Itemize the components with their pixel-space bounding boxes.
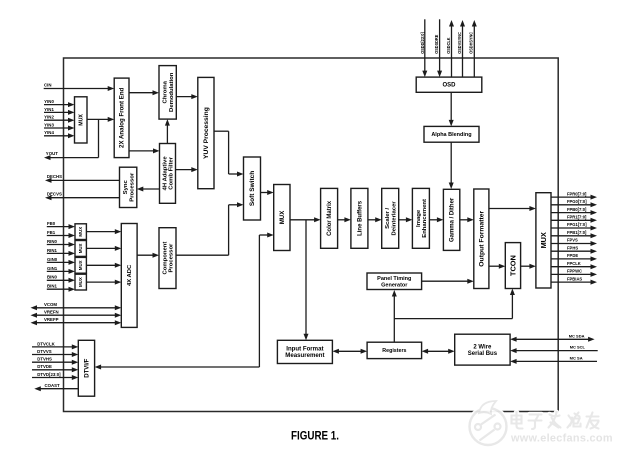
svg-text:Serial Bus: Serial Bus <box>468 351 498 357</box>
svg-text:FB0: FB0 <box>47 221 56 226</box>
svg-text:YIN0: YIN0 <box>44 99 54 104</box>
svg-text:MC SA: MC SA <box>570 356 583 361</box>
svg-text:Scaler /: Scaler / <box>385 208 391 229</box>
svg-text:RIN1: RIN1 <box>47 248 57 253</box>
svg-text:FPR0[7:0]: FPR0[7:0] <box>567 191 587 196</box>
svg-text:OSDHSYNC: OSDHSYNC <box>469 31 474 53</box>
svg-text:OSDSDRE: OSDSDRE <box>434 35 439 54</box>
svg-text:YIN3: YIN3 <box>44 122 54 127</box>
svg-text:MC SDA: MC SDA <box>569 333 585 338</box>
svg-text:MC SCL: MC SCL <box>570 345 586 350</box>
svg-text:YIN1: YIN1 <box>44 107 54 112</box>
svg-text:Comb Filter: Comb Filter <box>169 156 175 190</box>
svg-text:OSDD[23:0]: OSDD[23:0] <box>420 32 425 54</box>
svg-text:Demodulation: Demodulation <box>169 72 175 112</box>
svg-text:DTVI/F: DTVI/F <box>85 358 91 377</box>
svg-text:FIGURE 1.: FIGURE 1. <box>291 428 339 442</box>
svg-text:Color Matrix: Color Matrix <box>327 200 333 236</box>
svg-text:BIN0: BIN0 <box>47 275 57 280</box>
svg-text:FPBIAS: FPBIAS <box>567 276 582 281</box>
svg-text:VREFN: VREFN <box>44 310 59 315</box>
svg-text:FPB0[7:0]: FPB0[7:0] <box>567 207 587 212</box>
svg-text:MUX: MUX <box>78 243 83 253</box>
svg-text:MUX: MUX <box>539 232 548 248</box>
svg-text:MUX: MUX <box>279 210 286 225</box>
svg-text:DECHS: DECHS <box>47 174 62 179</box>
svg-text:Output Formatter: Output Formatter <box>479 211 486 267</box>
svg-text:Sync: Sync <box>123 180 129 195</box>
svg-text:4X ADC: 4X ADC <box>127 264 133 286</box>
svg-text:FPVS: FPVS <box>567 238 578 243</box>
svg-text:Component: Component <box>162 242 168 275</box>
svg-text:MUX: MUX <box>78 277 83 287</box>
svg-text:MUX: MUX <box>78 227 83 237</box>
svg-text:YIN2: YIN2 <box>44 115 54 120</box>
svg-text:DTVDE: DTVDE <box>37 364 52 369</box>
svg-text:FPDE: FPDE <box>567 253 578 258</box>
svg-text:Processor: Processor <box>169 243 175 273</box>
svg-text:Measurement: Measurement <box>285 352 324 359</box>
svg-text:TCON: TCON <box>509 255 518 276</box>
svg-text:MUX: MUX <box>79 114 85 126</box>
svg-text:VCOM: VCOM <box>44 302 57 307</box>
svg-text:Processor: Processor <box>129 172 135 202</box>
svg-text:RIN0: RIN0 <box>47 239 57 244</box>
svg-text:COAST: COAST <box>45 383 61 388</box>
svg-text:Panel Timing: Panel Timing <box>377 276 411 282</box>
svg-text:VREFP: VREFP <box>44 317 59 322</box>
svg-text:DECVS: DECVS <box>47 192 62 197</box>
svg-text:DTVVS: DTVVS <box>37 349 52 354</box>
svg-text:Gamma / Dither: Gamma / Dither <box>450 197 456 242</box>
svg-text:FPCLK: FPCLK <box>567 261 581 266</box>
svg-text:FPG1[7:0]: FPG1[7:0] <box>567 222 587 227</box>
svg-text:FB1: FB1 <box>47 230 56 235</box>
svg-text:Generator: Generator <box>381 282 408 288</box>
svg-text:DTVHS: DTVHS <box>37 357 52 362</box>
svg-text:www.elecfans.com: www.elecfans.com <box>510 433 613 445</box>
svg-text:FPG0[7:0]: FPG0[7:0] <box>567 199 587 204</box>
svg-text:OSDVSYNC: OSDVSYNC <box>457 32 462 54</box>
svg-text:Image: Image <box>416 209 422 227</box>
svg-text:BIN1: BIN1 <box>47 284 57 289</box>
svg-text:Registers: Registers <box>382 348 406 354</box>
svg-text:4H Adaptive: 4H Adaptive <box>162 156 168 191</box>
svg-text:FPPWC: FPPWC <box>567 269 582 274</box>
svg-text:Chroma: Chroma <box>163 80 169 103</box>
svg-text:YOUT: YOUT <box>46 151 58 156</box>
svg-text:Deinterlacer: Deinterlacer <box>391 201 397 236</box>
svg-text:YIN4: YIN4 <box>44 130 54 135</box>
svg-text:CIN: CIN <box>44 82 52 87</box>
svg-text:Enhancement: Enhancement <box>422 199 428 238</box>
svg-text:Line Buffers: Line Buffers <box>357 200 363 236</box>
svg-text:2 Wire: 2 Wire <box>473 344 492 350</box>
svg-text:GIN0: GIN0 <box>47 257 58 262</box>
svg-text:Soft Switch: Soft Switch <box>249 171 256 206</box>
svg-text:GIN1: GIN1 <box>47 266 58 271</box>
svg-text:Alpha Blending: Alpha Blending <box>431 132 471 138</box>
svg-text:YUV Processing: YUV Processing <box>203 107 210 159</box>
svg-text:OSDCLK: OSDCLK <box>446 37 451 54</box>
svg-text:MUX: MUX <box>78 260 83 270</box>
svg-text:FPB1[7:0]: FPB1[7:0] <box>567 230 587 235</box>
svg-text:DTVCLK: DTVCLK <box>37 341 55 346</box>
svg-text:OSD: OSD <box>443 83 457 89</box>
svg-text:FPR1[7:0]: FPR1[7:0] <box>567 215 587 220</box>
svg-text:DTVD[23:0]: DTVD[23:0] <box>37 372 61 377</box>
svg-text:FPHS: FPHS <box>567 245 578 250</box>
svg-text:2X Analog Front End: 2X Analog Front End <box>119 87 126 148</box>
